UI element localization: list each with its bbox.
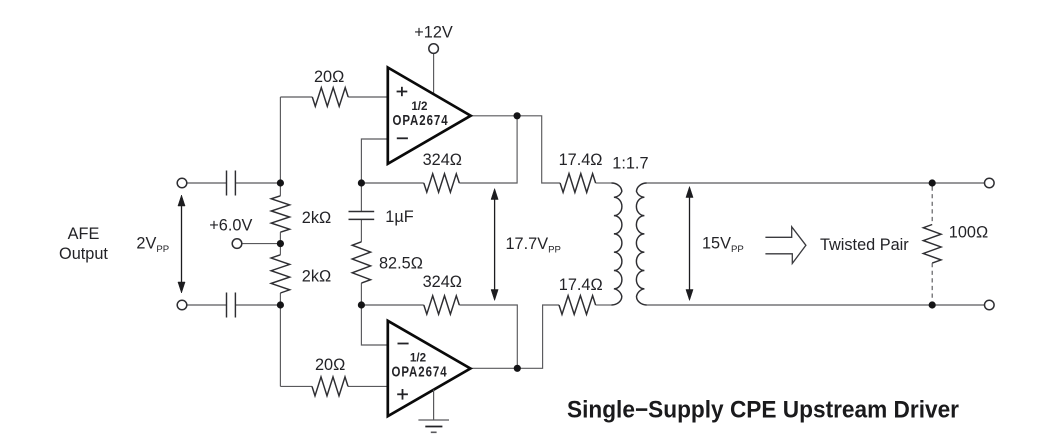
wire top feedback row xyxy=(361,182,423,184)
transformer T1 secondary winding xyxy=(636,183,646,305)
svg-text:20Ω: 20Ω xyxy=(314,68,344,86)
U1 minus sign xyxy=(397,137,408,139)
junction node M xyxy=(277,240,284,247)
resistor 100 load xyxy=(923,225,941,264)
wire R7 to transformer primary top xyxy=(596,182,612,184)
input terminal bottom xyxy=(177,300,187,310)
wire top noninverting row right xyxy=(348,96,389,98)
arrow 17.7Vpp span xyxy=(491,189,498,301)
svg-text:+12V: +12V xyxy=(414,24,453,42)
svg-text:AFE: AFE xyxy=(68,225,100,243)
wire C2 to node B xyxy=(235,304,280,306)
wire U1 inverting input xyxy=(361,139,389,183)
transformer T1 primary winding xyxy=(612,183,622,305)
junction node F (U2 out) xyxy=(514,365,521,372)
U1 plus sign xyxy=(397,87,408,96)
svg-text:20Ω: 20Ω xyxy=(315,356,345,374)
ground (below U2) xyxy=(418,390,449,433)
svg-text:1µF: 1µF xyxy=(385,208,413,226)
wire bottom noninverting row left xyxy=(280,385,312,387)
resistor 2k bottom xyxy=(271,255,290,293)
+6.0V terminal xyxy=(232,239,242,249)
resistor 20 top xyxy=(312,88,348,107)
svg-text:OPA2674: OPA2674 xyxy=(392,111,448,128)
U2 minus sign xyxy=(398,343,409,345)
capacitor C3 1uF xyxy=(349,212,375,220)
svg-text:100Ω: 100Ω xyxy=(949,223,988,241)
arrow 2Vpp span xyxy=(178,195,185,293)
+12V terminal xyxy=(429,44,439,54)
wire +6.0V terminal to node M xyxy=(242,243,281,245)
U1 label 1/2 xyxy=(411,99,428,113)
junction node H (load bottom) xyxy=(929,301,936,308)
wire +12V supply xyxy=(433,53,435,94)
junction node D xyxy=(358,301,365,308)
op-amp U1 (top 1/2 OPA2674) xyxy=(388,68,471,164)
svg-text:Output: Output xyxy=(59,245,108,263)
svg-text:+6.0V: +6.0V xyxy=(209,216,252,234)
wire secondary bottom to output terminal xyxy=(647,304,985,306)
svg-text:17.4Ω: 17.4Ω xyxy=(559,276,603,294)
dashed wire load top xyxy=(931,187,933,225)
resistor 17.4 bottom xyxy=(559,296,596,315)
capacitor C2 (input bottom) xyxy=(227,293,236,318)
junction node G (load top) xyxy=(929,179,936,186)
resistor 324 bottom xyxy=(424,296,460,314)
wire node A up left column xyxy=(279,97,281,196)
junction node A xyxy=(277,179,284,186)
wire U1 output to R7 xyxy=(471,116,560,183)
svg-text:324Ω: 324Ω xyxy=(423,151,462,169)
resistor 20 bottom xyxy=(312,377,348,396)
wire R8 to transformer primary bottom xyxy=(596,304,612,306)
wire input bottom: terminal to C2 xyxy=(187,304,227,306)
svg-text:1:1.7: 1:1.7 xyxy=(612,154,648,172)
junction node E (U1 out) xyxy=(514,112,521,119)
op-amp U2 (bottom 1/2 OPA2674) xyxy=(388,321,471,416)
block arrow (to twisted pair) xyxy=(765,227,806,264)
svg-text:2kΩ: 2kΩ xyxy=(302,267,331,285)
svg-text:17.4Ω: 17.4Ω xyxy=(559,151,603,169)
U2 label 1/2 xyxy=(410,350,427,364)
wire bottom noninverting row right xyxy=(348,385,389,387)
wire top feedback to node E xyxy=(459,116,517,183)
resistor 82.5 xyxy=(352,242,370,283)
resistor 324 top xyxy=(424,174,460,192)
svg-text:2kΩ: 2kΩ xyxy=(302,209,331,227)
U2 plus sign xyxy=(397,389,408,400)
junction node C xyxy=(358,179,365,186)
wire node C to C3 xyxy=(360,183,362,212)
wire bottom feedback row xyxy=(361,304,423,306)
wire between 2k resistors xyxy=(279,232,281,255)
wire C3 to R5 xyxy=(360,219,362,241)
wire top noninverting row left xyxy=(280,96,312,98)
wire bottom feedback to node F xyxy=(459,305,517,368)
wire R5 to node D xyxy=(360,283,362,305)
U2 label OPA2674 xyxy=(391,363,447,380)
dashed wire load bottom xyxy=(931,263,933,301)
wire input top: terminal to C1 xyxy=(187,182,227,184)
wire node B down left column xyxy=(279,293,281,386)
svg-text:82.5Ω: 82.5Ω xyxy=(379,255,423,273)
svg-text:Twisted Pair: Twisted Pair xyxy=(820,236,909,254)
wire U2 inverting input xyxy=(361,305,389,345)
wire U2 output to R8 xyxy=(470,305,559,368)
resistor 17.4 top xyxy=(560,174,596,193)
output terminal top xyxy=(985,178,995,188)
U1 label OPA2674 xyxy=(392,111,448,128)
arrow 15Vpp span xyxy=(686,187,693,301)
input terminal top xyxy=(177,178,187,188)
junction node B xyxy=(277,301,284,308)
svg-text:324Ω: 324Ω xyxy=(423,273,462,291)
capacitor C1 (input top) xyxy=(227,171,236,196)
resistor 2k top xyxy=(271,196,289,232)
svg-text:OPA2674: OPA2674 xyxy=(391,363,447,380)
wire secondary top to output terminal xyxy=(647,182,985,184)
output terminal bottom xyxy=(985,300,995,310)
svg-text:Single−Supply CPE Upstream Dri: Single−Supply CPE Upstream Driver xyxy=(567,397,959,424)
wire C1 to node A xyxy=(235,182,280,184)
